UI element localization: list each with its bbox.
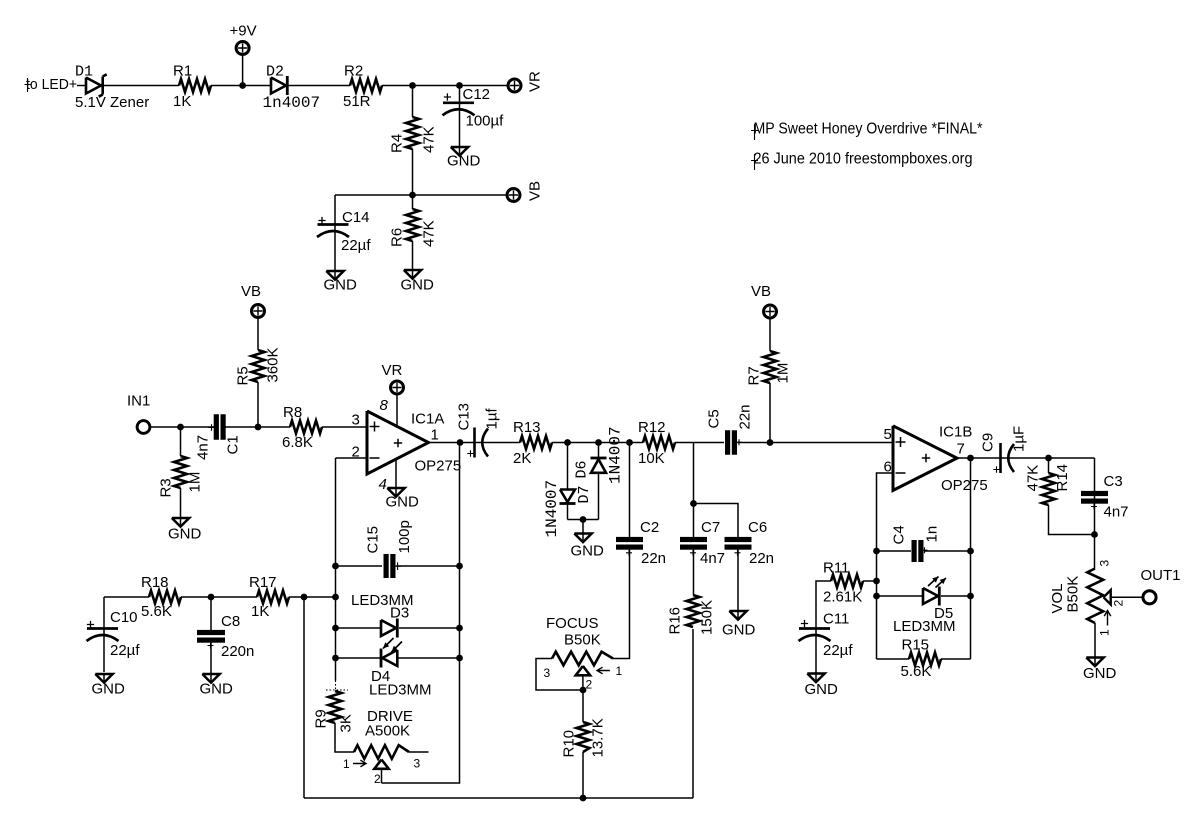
wire xyxy=(737,549,739,612)
svg-text:51R: 51R xyxy=(343,93,371,110)
resistor R17 xyxy=(257,591,289,604)
svg-text:R13: R13 xyxy=(513,419,541,436)
svg-text:1: 1 xyxy=(343,757,350,771)
wire pin6 xyxy=(877,473,894,551)
svg-text:C14: C14 xyxy=(342,209,370,226)
wire xyxy=(567,505,569,520)
svg-text:GND: GND xyxy=(401,277,435,294)
resistor R7 xyxy=(769,318,771,351)
node junction xyxy=(332,563,339,570)
svg-text:8: 8 xyxy=(380,397,389,414)
node junction xyxy=(301,594,308,601)
LED arrows D3 D4 xyxy=(383,638,394,649)
wire xyxy=(226,426,291,428)
svg-text:1K: 1K xyxy=(251,603,269,620)
wire C4 row xyxy=(877,550,912,552)
svg-text:R11: R11 xyxy=(823,560,849,577)
node junction xyxy=(626,439,633,446)
svg-text:OP275: OP275 xyxy=(415,458,462,475)
wire xyxy=(738,442,894,444)
node junction xyxy=(456,655,463,662)
wire xyxy=(475,442,521,444)
wire D5 row xyxy=(877,595,924,597)
terminal VB xyxy=(507,189,520,202)
wire C6 branch xyxy=(694,504,739,539)
terminal OUT1 xyxy=(1143,591,1156,604)
potentiometer VOL B50K xyxy=(1087,569,1103,624)
svg-text:GND: GND xyxy=(386,494,420,511)
svg-text:13.7K: 13.7K xyxy=(590,718,607,757)
svg-text:B50K: B50K xyxy=(564,632,601,649)
wiper FOCUS xyxy=(576,666,590,675)
node junction xyxy=(967,548,974,555)
wire xyxy=(322,426,367,428)
op-amp plus input mark B xyxy=(896,437,906,447)
node junction xyxy=(177,424,184,431)
svg-text:R2: R2 xyxy=(344,63,363,80)
capacitor C1 xyxy=(214,414,219,440)
node junction xyxy=(239,82,246,89)
resistor R5 xyxy=(257,318,259,351)
svg-text:47K: 47K xyxy=(421,126,438,153)
svg-text:C7: C7 xyxy=(701,519,720,536)
capacitor C7 xyxy=(680,537,707,542)
wiper DRIVE xyxy=(374,760,388,769)
svg-text:7: 7 xyxy=(957,441,965,458)
op-amp center plus B xyxy=(922,454,930,462)
svg-text:1n4007: 1n4007 xyxy=(263,94,321,112)
wire xyxy=(289,596,336,598)
svg-text:1N4007: 1N4007 xyxy=(607,426,625,484)
svg-text:22n: 22n xyxy=(749,550,774,567)
wire pin2 xyxy=(336,457,368,459)
node junction xyxy=(967,455,974,462)
resistor R11 xyxy=(831,575,863,588)
svg-text:C10: C10 xyxy=(110,609,138,626)
node junction output xyxy=(457,439,464,446)
svg-text:to LED+: to LED+ xyxy=(26,76,77,93)
svg-text:22µf: 22µf xyxy=(341,237,371,254)
node junction xyxy=(564,439,571,446)
resistor R3 xyxy=(180,427,182,456)
svg-text:R3: R3 xyxy=(158,478,175,497)
svg-text:R12: R12 xyxy=(638,419,666,436)
ground GND R3 xyxy=(172,518,189,527)
svg-text:1n: 1n xyxy=(924,526,941,543)
ground GND C11 xyxy=(807,674,824,683)
svg-text:C15: C15 xyxy=(365,526,382,554)
arrow focus pin1 xyxy=(597,667,610,674)
LED D4 xyxy=(380,649,383,668)
LED arrows D5 xyxy=(928,577,939,587)
svg-text:VOL: VOL xyxy=(1049,583,1066,613)
node junction xyxy=(767,439,774,446)
ground GND IC1A xyxy=(387,488,404,497)
svg-text:1N4007: 1N4007 xyxy=(543,480,561,538)
capacitor C13 xyxy=(473,428,476,458)
node junction xyxy=(580,687,587,694)
svg-text:R8: R8 xyxy=(283,404,302,421)
svg-text:GND: GND xyxy=(168,526,202,543)
capacitor C5 xyxy=(725,430,730,455)
svg-text:C5: C5 xyxy=(706,409,723,428)
ground GND clamp xyxy=(574,534,591,543)
wire xyxy=(582,520,584,534)
wire xyxy=(675,442,724,444)
wire C3 branch xyxy=(1094,458,1096,535)
node junction xyxy=(456,625,463,632)
resistor R18 xyxy=(149,591,181,604)
svg-text:OUT1: OUT1 xyxy=(1141,567,1181,584)
capacitor C2 xyxy=(616,537,643,542)
svg-text:1M: 1M xyxy=(775,363,792,384)
resistor R6 xyxy=(406,209,419,241)
svg-text:GND: GND xyxy=(447,153,481,170)
svg-text:3K: 3K xyxy=(338,714,355,732)
LED D5 xyxy=(923,588,938,604)
wire output xyxy=(429,442,475,444)
svg-text:2: 2 xyxy=(374,772,381,786)
wire xyxy=(288,85,351,87)
svg-text:D3: D3 xyxy=(390,605,409,622)
svg-text:IC1B: IC1B xyxy=(939,424,972,441)
op-amp IC1B xyxy=(893,426,957,491)
svg-text:VR: VR xyxy=(382,362,403,379)
wire xyxy=(613,549,630,659)
wire D4 row xyxy=(336,657,381,659)
svg-text:2: 2 xyxy=(586,678,593,692)
wire left drop xyxy=(303,597,305,798)
svg-text:R18: R18 xyxy=(141,574,169,591)
svg-text:R16: R16 xyxy=(667,607,684,635)
wire C7 branch xyxy=(693,443,695,539)
svg-text:GND: GND xyxy=(805,681,839,698)
node junction xyxy=(456,82,463,89)
wiper VOL xyxy=(1104,590,1111,605)
ground GND C8 xyxy=(202,674,219,683)
svg-text:6.8K: 6.8K xyxy=(282,434,313,451)
capacitor C6 xyxy=(725,537,752,542)
arrow vol pin1 xyxy=(1104,611,1111,626)
svg-text:5.1V Zener: 5.1V Zener xyxy=(75,94,149,111)
resistor R10 xyxy=(582,690,584,722)
svg-text:47K: 47K xyxy=(1025,465,1042,492)
svg-text:22n: 22n xyxy=(641,550,666,567)
svg-text:220n: 220n xyxy=(221,643,254,660)
potentiometer DRIVE A500K xyxy=(354,745,409,759)
svg-text:MP Sweet Honey Overdrive *FINA: MP Sweet Honey Overdrive *FINAL* xyxy=(754,121,983,138)
capacitor C14 xyxy=(334,195,336,271)
wire focus pin3 xyxy=(536,659,583,691)
svg-text:4n7: 4n7 xyxy=(195,435,212,460)
svg-text:22n: 22n xyxy=(737,404,754,429)
wire output B xyxy=(957,457,1001,459)
svg-text:C3: C3 xyxy=(1104,473,1123,490)
wire C2 branch xyxy=(629,443,631,539)
op-amp IC1A xyxy=(367,411,429,474)
svg-text:A500K: A500K xyxy=(365,723,410,740)
terminal VR IC1A xyxy=(391,381,404,394)
node junction xyxy=(873,548,880,555)
svg-text:GND: GND xyxy=(571,543,605,560)
svg-text:5.6K: 5.6K xyxy=(141,603,172,620)
op-amp minus input mark xyxy=(370,457,380,459)
capacitor C10 xyxy=(103,597,105,672)
diode D1 (5.1V zener) xyxy=(86,78,101,94)
wire xyxy=(150,426,215,428)
svg-text:R7: R7 xyxy=(746,366,763,385)
wire D3 row xyxy=(336,627,382,629)
node junction xyxy=(873,578,880,585)
terminal IN1 xyxy=(137,421,150,434)
resistor R1 xyxy=(179,79,211,92)
node junction xyxy=(595,439,602,446)
pin 4 wire xyxy=(395,459,397,488)
svg-text:150K: 150K xyxy=(699,600,716,635)
ground GND VOL xyxy=(1086,658,1103,667)
LED D3 xyxy=(381,620,396,636)
svg-text:R10: R10 xyxy=(561,730,578,758)
op-amp center plus xyxy=(394,439,402,447)
capacitor C11 xyxy=(815,628,817,674)
pin 8 wire xyxy=(396,396,398,427)
capacitor C8 xyxy=(210,597,212,630)
ground GND R6 xyxy=(404,270,421,279)
svg-text:IN1: IN1 xyxy=(127,393,150,410)
wire xyxy=(77,85,86,87)
svg-text:26 June 2010 freestompboxes.or: 26 June 2010 freestompboxes.org xyxy=(754,151,973,168)
node junction xyxy=(690,500,697,507)
svg-text:100µf: 100µf xyxy=(466,113,505,130)
node junction xyxy=(409,192,416,199)
ground GND C12 xyxy=(451,147,468,156)
wire feedback right rail xyxy=(382,443,460,784)
resistor R8 xyxy=(290,421,322,434)
svg-text:GND: GND xyxy=(1083,665,1117,682)
svg-text:VB: VB xyxy=(751,283,771,300)
node junction xyxy=(967,593,974,600)
node junction xyxy=(255,424,262,431)
svg-text:R5: R5 xyxy=(235,366,252,385)
ground GND C10 xyxy=(95,674,112,683)
resistor R16 xyxy=(687,595,700,627)
node junction xyxy=(580,795,587,802)
node junction xyxy=(580,516,587,523)
svg-text:D2: D2 xyxy=(266,64,284,81)
wire xyxy=(211,85,271,87)
node junction xyxy=(1091,531,1098,538)
svg-text:FOCUS: FOCUS xyxy=(546,615,599,632)
wire bottom bus xyxy=(304,797,693,799)
svg-text:3: 3 xyxy=(414,757,421,771)
svg-text:GND: GND xyxy=(324,277,358,294)
svg-text:GND: GND xyxy=(92,681,126,698)
resistor R15 xyxy=(909,653,941,666)
svg-text:LED3MM: LED3MM xyxy=(369,682,432,699)
capacitor C3 xyxy=(1081,491,1108,496)
svg-text:47K: 47K xyxy=(421,220,438,247)
svg-text:VR: VR xyxy=(527,71,544,92)
svg-text:1: 1 xyxy=(616,664,623,678)
svg-text:D1: D1 xyxy=(75,64,93,81)
svg-text:1: 1 xyxy=(1098,629,1112,636)
svg-text:C8: C8 xyxy=(221,613,240,630)
wire xyxy=(598,473,600,520)
wire clamp bottom xyxy=(568,519,599,521)
resistor R2 xyxy=(350,79,382,92)
svg-text:D6: D6 xyxy=(574,460,591,478)
svg-text:IC1A: IC1A xyxy=(411,411,444,428)
wire xyxy=(104,596,149,598)
svg-text:C2: C2 xyxy=(640,519,659,536)
op-amp plus input mark xyxy=(370,422,380,432)
svg-text:2: 2 xyxy=(1112,600,1126,607)
node junction xyxy=(409,82,416,89)
svg-text:VB: VB xyxy=(241,283,261,300)
svg-text:100p: 100p xyxy=(396,520,413,553)
svg-text:GND: GND xyxy=(200,681,234,698)
svg-text:1: 1 xyxy=(431,427,439,444)
svg-text:R4: R4 xyxy=(389,134,406,153)
wire VB rail xyxy=(335,194,506,196)
diode D6 xyxy=(591,457,607,460)
svg-text:5.6K: 5.6K xyxy=(901,663,932,680)
op-amp minus input mark B xyxy=(896,472,906,474)
svg-text:LED3MM: LED3MM xyxy=(893,618,956,635)
wire xyxy=(382,85,507,87)
svg-text:R1: R1 xyxy=(173,63,192,80)
svg-text:1M: 1M xyxy=(187,472,204,493)
svg-text:1K: 1K xyxy=(173,93,191,110)
svg-text:2.61K: 2.61K xyxy=(823,589,862,606)
svg-text:4: 4 xyxy=(379,476,387,493)
resistor R4 xyxy=(412,86,414,118)
wire drive pin3 xyxy=(409,751,429,753)
svg-text:VB: VB xyxy=(527,181,544,201)
svg-text:C6: C6 xyxy=(748,519,767,536)
wire xyxy=(1001,457,1095,459)
svg-text:R17: R17 xyxy=(249,574,277,591)
svg-text:3: 3 xyxy=(544,666,551,680)
svg-text:B50K: B50K xyxy=(1065,576,1082,613)
svg-text:1µf: 1µf xyxy=(484,408,501,430)
diode D2 xyxy=(271,78,286,94)
svg-text:4n7: 4n7 xyxy=(700,550,725,567)
wire xyxy=(1094,535,1096,569)
resistor R9 xyxy=(329,691,342,723)
svg-text:10K: 10K xyxy=(638,450,665,467)
resistor R14 xyxy=(1048,458,1050,473)
ground GND C6 xyxy=(729,611,746,620)
svg-text:22µf: 22µf xyxy=(823,642,853,659)
svg-text:3: 3 xyxy=(1098,560,1112,567)
diode D7 xyxy=(560,490,575,503)
power +9V terminal xyxy=(236,42,249,55)
svg-text:3: 3 xyxy=(352,412,360,429)
svg-text:R6: R6 xyxy=(389,228,406,247)
node junction xyxy=(456,563,463,570)
terminal VB right xyxy=(764,305,777,318)
terminal VB main xyxy=(252,305,265,318)
capacitor C9 xyxy=(999,443,1002,473)
node junction xyxy=(332,594,339,601)
svg-text:D7: D7 xyxy=(576,485,593,503)
capacitor C15 xyxy=(384,554,389,578)
svg-text:R9: R9 xyxy=(313,709,330,728)
wire out rail xyxy=(970,458,972,659)
arrow drive pin1 xyxy=(353,760,366,767)
wire xyxy=(104,85,179,87)
wire xyxy=(181,596,257,598)
node junction xyxy=(332,625,339,632)
wire fb left rail B xyxy=(876,551,878,659)
ground GND C14 xyxy=(326,271,343,280)
node junction xyxy=(208,594,215,601)
node junction xyxy=(873,593,880,600)
svg-text:C9: C9 xyxy=(980,433,997,452)
svg-text:R15: R15 xyxy=(902,637,930,654)
capacitor C4 xyxy=(912,540,917,562)
svg-text:1µF: 1µF xyxy=(1011,426,1028,452)
wire C15 row xyxy=(336,565,383,567)
svg-text:22µf: 22µf xyxy=(110,642,140,659)
wire feedback left rail xyxy=(335,458,337,681)
svg-text:C4: C4 xyxy=(891,525,908,544)
svg-text:C11: C11 xyxy=(823,611,849,628)
wire R15 row xyxy=(877,658,910,660)
wire xyxy=(552,442,643,444)
svg-text:C1: C1 xyxy=(225,435,242,454)
capacitor C12 xyxy=(459,86,461,148)
resistor R12 xyxy=(643,436,675,449)
node junction xyxy=(1045,455,1052,462)
svg-text:+9V: +9V xyxy=(230,23,257,40)
svg-text:C13: C13 xyxy=(456,403,473,431)
dotted stub R9 xyxy=(335,681,337,691)
svg-text:4n7: 4n7 xyxy=(1104,504,1129,521)
svg-text:C12: C12 xyxy=(463,86,491,103)
wire xyxy=(693,549,695,596)
svg-text:GND: GND xyxy=(722,622,756,639)
wire D7 branch xyxy=(567,443,569,490)
svg-text:2K: 2K xyxy=(513,450,531,467)
svg-text:5: 5 xyxy=(884,426,892,443)
wire D6 branch xyxy=(598,443,600,458)
resistor R13 xyxy=(520,436,552,449)
svg-text:360K: 360K xyxy=(265,347,282,382)
svg-text:OP275: OP275 xyxy=(941,477,988,494)
node junction xyxy=(332,655,339,662)
svg-text:R14: R14 xyxy=(1054,464,1071,492)
terminal VR xyxy=(508,79,521,92)
potentiometer FOCUS B50K xyxy=(552,652,613,666)
